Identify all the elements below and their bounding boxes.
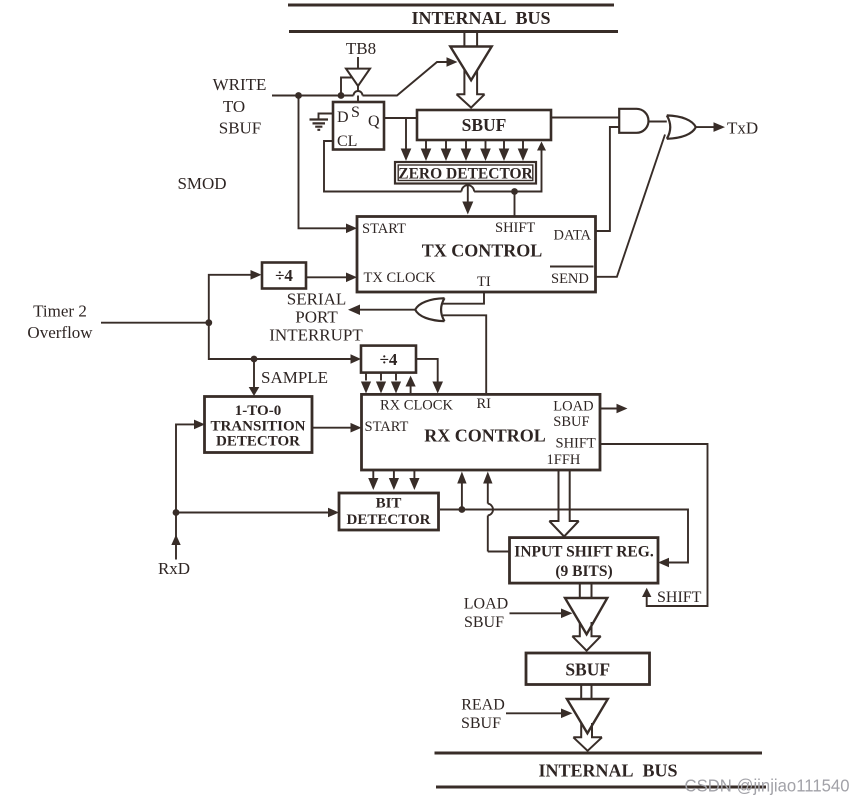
svg-text:RX CONTROL: RX CONTROL [424,426,546,446]
svg-text:S: S [351,104,360,121]
svg-text:DETECTOR: DETECTOR [216,434,300,450]
wire timer branch into divide-by-4 [209,275,253,323]
junction write line / TB8 branch [338,92,345,99]
divide-by-4 box (TX) [262,263,306,289]
svg-text:1-TO-0: 1-TO-0 [235,403,281,419]
load sbuf arrow [510,612,564,614]
rx clock arrows down [366,373,396,381]
RX control pin labels [365,396,596,468]
svg-text:LOAD: LOAD [553,399,593,415]
svg-text:TX CONTROL: TX CONTROL [422,241,543,261]
svg-text:SBUF: SBUF [565,660,610,680]
svg-text:÷4: ÷4 [275,266,293,285]
wire divide-by-4 to TX clock [306,276,348,278]
OR gate U6 [667,115,696,138]
wire sample down to transition detector [253,359,255,387]
RX shift output loop wire [600,444,708,606]
TB8 pass triangle [346,69,370,86]
svg-text:Timer 2: Timer 2 [33,302,87,321]
wire triangle apex to flip-flop S input [357,86,359,102]
svg-text:LOAD: LOAD [464,596,508,613]
wire TB8 branch into pass triangle [341,78,352,96]
hollow arrow RX control to input shift register [549,470,579,537]
svg-text:1FFH: 1FFH [547,452,581,468]
svg-text:INTERNAL BUS: INTERNAL BUS [538,761,677,781]
svg-text:RX CLOCK: RX CLOCK [380,398,453,414]
zero detector output wire to TX control [467,184,469,202]
WRITE TO SBUF wire [272,95,398,97]
svg-text:INTERRUPT: INTERRUPT [269,326,363,345]
junction write line / start branch [295,92,302,99]
svg-text:RxD: RxD [158,559,190,578]
INPUT SHIFT REG box [510,538,659,584]
TX CONTROL box [357,217,596,293]
RI wire into OR gate [443,315,486,394]
svg-text:TB8: TB8 [346,39,376,58]
arrow up into RX control 1 [461,484,463,510]
shaft SBUF to read driver [581,685,591,700]
wire flip-flop Q to SBUF [384,117,417,119]
BIT DETECTOR box [339,493,439,530]
divide-by-4 box (RX) [361,346,416,373]
svg-text:WRITE: WRITE [213,75,267,94]
svg-text:Overflow: Overflow [27,323,93,342]
SBUF (receive) box [526,653,650,685]
SBUF to zero detector arrows [421,140,529,161]
read sbuf arrow [506,712,563,714]
svg-text:CL: CL [337,133,357,150]
SBUF output wire to AND gate [551,117,619,119]
svg-text:SHIFT: SHIFT [556,436,596,452]
svg-text:CSDN @jinjiao111540: CSDN @jinjiao111540 [685,776,850,796]
svg-text:INTERNAL BUS: INTERNAL BUS [411,8,550,28]
svg-text:DATA: DATA [554,228,592,244]
internal bus (bottom) upper line [435,752,763,755]
RX CONTROL box [362,394,601,470]
svg-text:READ: READ [461,697,505,714]
svg-text:SAMPLE: SAMPLE [261,368,328,387]
svg-text:÷4: ÷4 [380,350,398,369]
wire RxD branch to bit detector [176,512,330,514]
bus tap double line to write driver [464,32,477,47]
svg-text:DETECTOR: DETECTOR [347,512,431,528]
svg-text:SBUF: SBUF [461,715,501,732]
rx feedback arrow up [410,385,412,394]
svg-text:(9 BITS): (9 BITS) [555,563,612,580]
svg-text:BIT: BIT [376,496,402,512]
svg-text:SBUF: SBUF [219,119,262,138]
svg-text:TxD: TxD [727,119,758,138]
svg-text:SERIAL: SERIAL [287,290,347,309]
hollow arrow through read driver [573,723,602,751]
serial port interrupt OR gate (mirrored) [415,298,444,321]
write driver triangle U1 [450,47,491,81]
shaft ISR to load driver [580,583,592,598]
junction CL line / TX control branch [511,188,518,195]
TI wire into OR gate [443,292,485,304]
svg-text:SHIFT: SHIFT [657,589,702,606]
svg-text:PORT: PORT [295,308,338,327]
svg-text:RI: RI [477,396,492,412]
hop arc of CL line over zero detector output [462,185,475,191]
flip-flop pin labels [337,104,380,150]
svg-text:TRANSITION: TRANSITION [210,419,305,435]
hop arc of WRITE line over S wire [354,91,363,95]
write strobe diagonal arrow into driver [397,62,449,96]
svg-text:START: START [362,221,406,237]
svg-text:D: D [337,109,349,126]
wire CL line continuing to SBUF feedback [474,151,541,192]
TB8 stem wire [357,57,359,69]
RX control to bit detector arrows [373,470,414,481]
wire D input to ground [319,114,334,120]
svg-text:TO: TO [223,97,245,116]
transition detector to RX start arrow [312,427,353,429]
RxD wire up to transition detector [176,424,196,559]
hollow data arrow through write driver [457,70,485,108]
interrupt output arrow [359,309,415,311]
svg-text:INPUT SHIFT REG.: INPUT SHIFT REG. [514,544,654,561]
svg-text:TI: TI [477,274,491,290]
AND to OR wire [649,121,670,123]
internal bus (top) upper line [288,4,614,7]
TxD output arrow [696,126,716,128]
arrowhead up into SBUF bottom [537,142,546,151]
svg-text:SMOD: SMOD [177,174,226,193]
D flip-flop U2 [333,102,384,150]
AND gate U5 [619,109,648,133]
zero detector box (double border) [395,162,536,184]
svg-text:SBUF: SBUF [553,414,589,430]
SEND overline [550,266,594,268]
svg-text:SBUF: SBUF [462,115,507,135]
arrow up into RX control 2 with hop [488,481,510,552]
junction RxD line / bit detector branch [173,509,180,516]
DATA wire to AND gate [596,127,619,231]
1-to-0 transition detector box [205,397,313,453]
bit detector output wire [440,510,688,563]
junction timer wire [205,319,212,326]
junction bit detector line / RX up arrow [459,506,466,513]
load driver triangle U3 [565,598,607,634]
svg-text:SEND: SEND [551,271,589,287]
svg-text:ZERO DETECTOR: ZERO DETECTOR [398,166,533,183]
svg-text:START: START [365,419,409,435]
wire write line down to TX start [299,96,349,229]
svg-text:TX CLOCK: TX CLOCK [364,270,437,286]
SBUF (transmit) box [417,110,551,140]
timer 2 overflow wire [101,322,209,324]
internal bus (bottom) lower line [436,786,766,789]
svg-text:SBUF: SBUF [464,614,504,631]
wire timer branch down to sample line [209,323,353,359]
SEND diagonal wire to OR gate [596,135,666,277]
TX control pin labels [362,220,592,290]
read driver triangle U4 [567,699,608,733]
wire junction down to TX control [514,192,516,217]
wire CL to zero-detector feed line [324,141,462,192]
ground [310,120,329,130]
wire Q branch down to zero detector [405,118,407,149]
RxD arrowhead on vertical [171,535,180,546]
divide-by-4 RX output loop wire [416,359,438,384]
junction sample line [251,356,258,363]
internal bus (top) lower line [289,30,618,33]
hollow arrow through load driver [572,622,601,651]
svg-text:Q: Q [368,113,380,130]
RX load sbuf output arrow [600,408,619,410]
svg-text:SHIFT: SHIFT [495,220,535,236]
